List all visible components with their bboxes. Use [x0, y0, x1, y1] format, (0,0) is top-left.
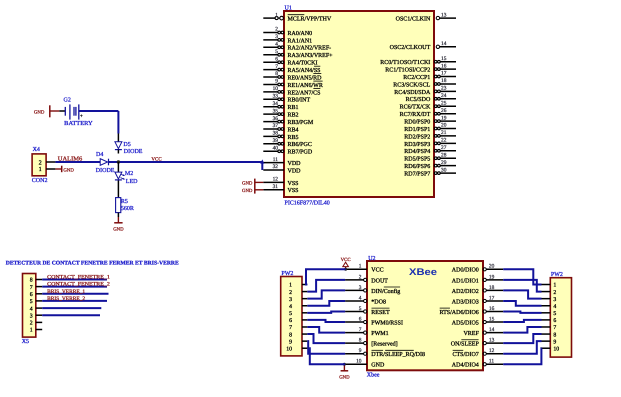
svg-text:560R: 560R: [121, 206, 134, 212]
svg-text:VDD: VDD: [288, 161, 302, 167]
svg-text:AD0/DIO0: AD0/DIO0: [452, 268, 479, 274]
svg-text:20: 20: [489, 264, 495, 270]
svg-text:20: 20: [441, 123, 447, 129]
net label BRIS_VERRE_1: [47, 289, 85, 295]
M2 comment LED: [126, 179, 138, 185]
X5 pin 7: [30, 285, 43, 291]
wire X5 pin 8: [42, 279, 107, 281]
X5 pin 5: [30, 299, 43, 305]
U1 pin 26 RC7/RX/DT: [400, 108, 456, 118]
svg-text:7: 7: [553, 325, 556, 331]
U1 pin 9 RE1/AN6/WR: [263, 79, 323, 89]
svg-text:GND: GND: [113, 227, 124, 233]
R5 designator: [121, 199, 128, 205]
svg-text:19: 19: [489, 274, 495, 280]
U2 pin 14 VREF: [463, 327, 503, 337]
svg-text:3: 3: [30, 313, 33, 319]
U2 pin 3 DIN/Config: [345, 285, 400, 295]
svg-text:VDD: VDD: [288, 168, 302, 174]
svg-text:GND: GND: [242, 181, 253, 187]
U2 pin 16 RTS/AD6/DIO6: [439, 306, 503, 316]
diode D4: [100, 159, 108, 166]
wire PW2 pin 5 to U2: [307, 312, 345, 313]
svg-text:DIN/Config: DIN/Config: [371, 288, 400, 295]
svg-text:BATTERY: BATTERY: [64, 121, 93, 127]
svg-text:3: 3: [553, 297, 556, 303]
junction at GND / U2 pin10: [343, 363, 346, 366]
PW2 (left) designator: [281, 271, 293, 277]
svg-text:2: 2: [30, 321, 33, 327]
svg-text:38: 38: [273, 131, 279, 137]
svg-text:BRIS_VERRE_2: BRIS_VERRE_2: [47, 296, 85, 302]
svg-text:28: 28: [441, 152, 447, 158]
svg-text:25: 25: [441, 100, 447, 106]
svg-text:[Reserved]: [Reserved]: [371, 341, 397, 348]
svg-text:13: 13: [489, 338, 495, 344]
svg-text:7: 7: [30, 285, 33, 291]
U1 pin 27 RD4/PSP4: [404, 145, 456, 155]
svg-text:RD3/PSP3: RD3/PSP3: [404, 142, 430, 148]
svg-text:DIODE: DIODE: [124, 149, 143, 155]
svg-text:GND: GND: [242, 188, 253, 194]
svg-text:RC7/RX/DT: RC7/RX/DT: [400, 112, 431, 118]
svg-text:7: 7: [359, 327, 362, 333]
svg-text:CONTACT_FENETRE_2: CONTACT_FENETRE_2: [47, 282, 110, 288]
svg-text:AD2/DIO2: AD2/DIO2: [452, 289, 479, 295]
U1 pin 13 OSC1/CLKIN: [396, 12, 456, 22]
U1 pin 12 VSS: [263, 177, 298, 187]
svg-text:OSC2/CLKOUT: OSC2/CLKOUT: [390, 45, 431, 51]
svg-text:5: 5: [553, 311, 556, 317]
U1 pin 16 RC1/T1OSI/CCP2: [385, 63, 456, 73]
wire battery to D5 (blue, down at x=118.4): [79, 111, 119, 142]
wire LED to R5: [117, 181, 119, 198]
svg-text:6: 6: [275, 56, 278, 62]
PW2 (right) pin 1: [542, 283, 557, 289]
svg-text:GND: GND: [63, 167, 74, 173]
wire U2 to PW2-right pin 2: [503, 280, 541, 292]
PW2 (right) pin 4: [542, 304, 557, 310]
U2 comment Xbee: [367, 371, 380, 378]
U2 designator: [368, 256, 375, 262]
svg-text:11: 11: [273, 157, 278, 163]
svg-text:AD5/DIO5: AD5/DIO5: [452, 320, 479, 326]
net label BRIS_VERRE_2: [47, 296, 85, 302]
U1 pin 35 RB2: [263, 108, 298, 118]
svg-text:1: 1: [359, 264, 362, 270]
U1 pin 7 RA5/AN4/SS: [263, 64, 320, 74]
LED M2: [115, 172, 125, 180]
svg-text:39: 39: [273, 138, 279, 144]
svg-text:34: 34: [273, 101, 279, 107]
battery designator G2: [64, 97, 71, 103]
U1 designator label: [285, 6, 292, 12]
svg-text:RE2/AN7/CS: RE2/AN7/CS: [288, 90, 321, 96]
svg-text:2: 2: [359, 274, 362, 280]
U2 pin 1 VCC: [345, 264, 384, 274]
svg-text:PW2: PW2: [551, 272, 563, 278]
svg-text:1: 1: [553, 283, 556, 289]
svg-text:11: 11: [489, 359, 494, 365]
connector X4 CON2 body: [32, 154, 46, 176]
M2 designator: [125, 171, 133, 177]
svg-text:D4: D4: [96, 152, 103, 158]
svg-text:18: 18: [489, 285, 495, 291]
svg-text:14: 14: [441, 41, 447, 47]
U2 pin 7 PWM1: [345, 327, 389, 337]
svg-text:VREF: VREF: [463, 331, 479, 337]
svg-text:RD2/PSP2: RD2/PSP2: [404, 134, 430, 140]
svg-text:UALIM6: UALIM6: [58, 156, 82, 162]
wire R5 to GND: [117, 213, 119, 223]
svg-text:RE1/AN6/WR: RE1/AN6/WR: [288, 83, 323, 89]
svg-text:RD1/PSP1: RD1/PSP1: [404, 127, 430, 133]
svg-text:37: 37: [273, 123, 279, 129]
svg-text:RA0/AN0: RA0/AN0: [288, 31, 313, 37]
U1 pin 37 RB4: [263, 123, 298, 133]
svg-text:8: 8: [553, 332, 556, 338]
svg-text:OSC1/CLKIN: OSC1/CLKIN: [396, 17, 431, 23]
U2 pin 12 CTS/DIO7: [452, 348, 503, 358]
svg-text:DOUT: DOUT: [371, 278, 388, 284]
svg-text:RA4/T0CKI: RA4/T0CKI: [288, 61, 318, 67]
svg-text:9: 9: [553, 339, 556, 345]
connector PW2 (left) body: [281, 277, 302, 356]
svg-text:RE0/AN5/RD: RE0/AN5/RD: [288, 75, 323, 81]
U1 pin 38 RB5: [263, 131, 298, 141]
U1 pin 34 RB1: [263, 101, 298, 111]
U1 pin 31 VSS: [263, 184, 298, 194]
wire X5 pin 5: [42, 300, 107, 302]
U2 pin 8 [Reserved]: [345, 338, 398, 348]
IC U2 XBee body: [367, 261, 483, 370]
U1 pin 4 RA2/AN2/VREF-: [263, 42, 331, 52]
svg-text:RTS/AD6/DIO6: RTS/AD6/DIO6: [439, 310, 478, 316]
U1 pin 15 RC0/T1OSO/T1CKI: [380, 56, 456, 66]
svg-text:+: +: [80, 114, 83, 120]
U2 pin 4 *DO8: [345, 295, 386, 305]
power port GND at X4 pin 1: [55, 166, 74, 174]
svg-text:15: 15: [489, 316, 495, 322]
U2 pin 2 DOUT: [345, 274, 388, 284]
svg-text:8: 8: [289, 332, 292, 338]
svg-text:DIODE: DIODE: [96, 168, 115, 174]
svg-text:7: 7: [275, 64, 278, 70]
U1 pin 1 MCLR/VPP/THV: [263, 12, 332, 22]
power port GND at battery: [34, 105, 50, 117]
U1 pin 14 OSC2/CLKOUT: [390, 41, 456, 51]
PW2 (right) designator: [551, 272, 563, 278]
svg-text:10: 10: [356, 359, 362, 365]
svg-text:ON/SLEEP: ON/SLEEP: [451, 342, 480, 348]
connector PW2 (right) body: [550, 278, 571, 357]
U2 pin 11 AD4/DIO4: [452, 359, 503, 369]
svg-text:RC4/SDI/SDA: RC4/SDI/SDA: [394, 90, 431, 96]
X4 comment CON2: [32, 178, 48, 184]
svg-text:RD0/PSP0: RD0/PSP0: [404, 120, 430, 126]
U1 pin 39 RB6/PGC: [263, 138, 312, 148]
svg-text:9: 9: [275, 79, 278, 85]
svg-text:2: 2: [553, 290, 556, 296]
svg-text:36: 36: [273, 116, 279, 122]
D4 comment DIODE: [96, 168, 115, 174]
svg-text:RC3/SCK/SCL: RC3/SCK/SCL: [393, 82, 430, 88]
wire D4 to VDD pins (net VCC): [109, 161, 263, 163]
svg-text:4: 4: [30, 306, 33, 312]
svg-text:18: 18: [441, 78, 447, 84]
svg-text:26: 26: [441, 108, 447, 114]
svg-text:16: 16: [489, 306, 495, 312]
svg-text:G2: G2: [64, 97, 71, 103]
X5 pin 8: [30, 278, 43, 284]
svg-text:1: 1: [289, 283, 292, 289]
svg-text:M2: M2: [125, 171, 133, 177]
PW2 (right) pin 7: [542, 325, 557, 331]
U2 pin 9 DTR/SLEEP_RQ/DI8: [345, 348, 425, 358]
wire PW2 pin 10 to U2: [307, 348, 345, 364]
svg-text:RC5/SDO: RC5/SDO: [406, 97, 431, 103]
wire PW2 pin 6 to U2: [307, 320, 345, 322]
svg-text:7: 7: [289, 325, 292, 331]
svg-text:12: 12: [489, 348, 495, 354]
U2 pin 6 PWM0/RSSI: [345, 316, 403, 326]
D5 designator: [123, 142, 130, 148]
PW2 (left) pin 1: [289, 283, 307, 289]
svg-text:RA1/AN1: RA1/AN1: [288, 38, 313, 44]
svg-text:RB4: RB4: [288, 127, 299, 133]
svg-text:1: 1: [30, 328, 33, 334]
PW2 (left) pin 9: [289, 339, 307, 345]
svg-text:LED: LED: [126, 179, 138, 185]
svg-text:6: 6: [553, 318, 556, 324]
svg-text:24: 24: [441, 93, 447, 99]
U1 pin 21 RD2/PSP2: [404, 130, 456, 140]
junction at VCC / U2 pin1: [344, 268, 347, 271]
svg-text:RD7/PSP7: RD7/PSP7: [404, 172, 430, 178]
U1 pin 29 RD6/PSP6: [404, 160, 456, 170]
svg-text:5: 5: [289, 311, 292, 317]
wire U2 to PW2-right pin 5: [503, 312, 541, 313]
svg-text:29: 29: [441, 160, 447, 166]
power port VCC at U2 pin 1: [341, 257, 351, 269]
svg-text:33: 33: [273, 94, 279, 100]
svg-text:RB0/INT: RB0/INT: [288, 98, 311, 104]
svg-text:8: 8: [30, 278, 33, 284]
PW2 (left) pin 10: [286, 346, 307, 352]
svg-text:DTR/SLEEP_RQ/DI8: DTR/SLEEP_RQ/DI8: [371, 352, 425, 358]
power port GND at U1 VSS pin 31: [242, 186, 263, 194]
PW2 (left) pin 8: [289, 332, 307, 338]
svg-text:15: 15: [441, 56, 447, 62]
PW2 (left) pin 5: [289, 311, 307, 317]
svg-text:5: 5: [275, 49, 278, 55]
svg-text:BRIS_VERRE_1: BRIS_VERRE_1: [47, 289, 85, 295]
svg-text:RD4/PSP4: RD4/PSP4: [404, 149, 430, 155]
svg-text:6: 6: [289, 318, 292, 324]
U2 pin 5 RESET: [345, 306, 390, 316]
PW2 (left) pin 2: [289, 290, 307, 296]
svg-text:19: 19: [441, 115, 447, 121]
PW2 (left) pin 7: [289, 325, 307, 331]
PW2 (left) pin 6: [289, 318, 307, 324]
svg-text:RB7/PGD: RB7/PGD: [288, 150, 313, 156]
U1 pin 10 RE2/AN7/CS: [263, 86, 320, 96]
svg-text:U1: U1: [285, 6, 292, 12]
svg-text:2: 2: [289, 290, 292, 296]
svg-text:PIC16F877/DIL40: PIC16F877/DIL40: [285, 200, 330, 206]
svg-text:RA3/AN3/VREF+: RA3/AN3/VREF+: [288, 53, 334, 59]
net label CONTACT_FENETRE_1: [47, 275, 110, 281]
U1 pin 3 RA1/AN1: [263, 34, 312, 44]
wire VDD vertical link + junction arrow: [260, 159, 264, 170]
svg-text:D5: D5: [123, 142, 130, 148]
svg-text:5: 5: [359, 306, 362, 312]
svg-text:PW2: PW2: [281, 271, 293, 277]
svg-text:U2: U2: [368, 256, 375, 262]
PW2 (right) pin 8: [542, 332, 557, 338]
U1 pin 22 RD3/PSP3: [404, 138, 456, 148]
wire PW2 pin 7 to U2: [307, 327, 345, 333]
svg-text:VSS: VSS: [288, 181, 299, 187]
U2 pin 15 AD5/DIO5: [452, 316, 503, 326]
wire X5 pin 3: [42, 314, 100, 316]
wire X5 pin 4: [42, 307, 101, 309]
svg-text:RB1: RB1: [288, 105, 299, 111]
U1 pin 23 RC4/SDI/SDA: [394, 86, 456, 96]
X5 pin 4: [30, 306, 43, 312]
wire U2 to PW2-right pin 6: [503, 320, 541, 322]
PW2 (right) pin 2: [542, 290, 557, 296]
U1 pin 25 RC6/TX/CK: [400, 100, 456, 110]
svg-text:RB3/PGM: RB3/PGM: [288, 120, 314, 126]
svg-text:RC2/CCP1: RC2/CCP1: [403, 75, 430, 81]
U1 pin 30 RD7/PSP7: [404, 167, 456, 177]
svg-text:3: 3: [275, 34, 278, 40]
svg-text:VSS: VSS: [288, 188, 299, 194]
U1 pin 18 RC3/SCK/SCL: [393, 78, 456, 88]
wire U2 to PW2-right pin 8: [503, 334, 541, 343]
PW2 (left) pin 4: [289, 304, 307, 310]
D4 designator: [96, 152, 103, 158]
svg-text:14: 14: [489, 327, 495, 333]
IC U1 PIC16F877 body: [284, 11, 434, 197]
svg-text:27: 27: [441, 145, 447, 151]
svg-text:X5: X5: [22, 339, 29, 345]
PW2 (left) pin 3: [289, 297, 307, 303]
wire GND to battery: [50, 110, 65, 112]
svg-text:30: 30: [441, 167, 447, 173]
svg-text:21: 21: [441, 130, 447, 136]
U1 pin 36 RB3/PGM: [263, 116, 314, 126]
wire U2 to PW2-right pin 3: [503, 290, 541, 298]
svg-text:8: 8: [359, 338, 362, 344]
XBee logo text: [409, 267, 437, 278]
svg-text:CON2: CON2: [32, 178, 48, 184]
svg-text:X4: X4: [33, 147, 40, 153]
wire U2 to PW2-right pin 1: [503, 269, 541, 284]
PW2 (right) pin 10: [542, 346, 560, 352]
resistor R5: [116, 198, 121, 213]
svg-text:VCC: VCC: [371, 268, 383, 274]
svg-text:32: 32: [273, 164, 279, 170]
svg-text:CTS/DIO7: CTS/DIO7: [452, 352, 478, 358]
svg-text:8: 8: [275, 71, 278, 77]
svg-text:9: 9: [289, 339, 292, 345]
U2 pin 10 GND: [345, 359, 385, 369]
svg-text:VCC: VCC: [151, 157, 162, 163]
power port GND at U1 VSS pin 12: [242, 179, 263, 187]
U1 pin 32 VDD: [263, 164, 301, 174]
svg-text:PWM0/RSSI: PWM0/RSSI: [371, 320, 403, 326]
U2 pin 18 AD2/DIO2: [452, 285, 503, 295]
net label UALIM6: [58, 156, 82, 162]
X5 pin 6: [30, 292, 43, 298]
svg-text:6: 6: [30, 292, 33, 298]
svg-text:GND: GND: [34, 110, 45, 116]
U2 pin 17 AD3/DIO3: [452, 295, 503, 305]
svg-text:RD6/PSP6: RD6/PSP6: [404, 164, 430, 170]
svg-text:RESET: RESET: [371, 310, 390, 316]
svg-text:9: 9: [359, 348, 362, 354]
svg-text:RC6/TX/CK: RC6/TX/CK: [400, 105, 431, 111]
svg-text:17: 17: [441, 71, 447, 77]
svg-text:1: 1: [39, 166, 42, 173]
svg-text:GND: GND: [339, 375, 350, 381]
diode D5: [115, 142, 122, 154]
svg-text:10: 10: [553, 346, 559, 352]
svg-text:6: 6: [359, 316, 362, 322]
U1 pin 33 RB0/INT: [263, 94, 310, 104]
PW2 (right) pin 5: [542, 311, 557, 317]
svg-text:35: 35: [273, 108, 279, 114]
svg-text:RB6/PGC: RB6/PGC: [288, 142, 312, 148]
svg-text:1: 1: [275, 12, 278, 18]
U1 pin 8 RE0/AN5/RD: [263, 71, 322, 81]
U1 pin 19 RD0/PSP0: [404, 115, 456, 125]
U2 pin 19 AD1/DIO1: [452, 274, 503, 284]
U2 pin 20 AD0/DIO0: [452, 264, 503, 274]
svg-text:13: 13: [441, 12, 447, 18]
junction node at D5/D4/LED: [117, 160, 120, 163]
wire U2 to PW2-right pin 10: [503, 348, 541, 364]
svg-text:*DO8: *DO8: [371, 299, 386, 305]
R5 value 560R: [121, 206, 134, 212]
wire X5 pin 6: [42, 293, 108, 295]
net label VCC: [151, 157, 162, 163]
wire PW2 pin 9 to U2: [307, 341, 345, 354]
svg-text:RB2: RB2: [288, 113, 299, 119]
wire PW2 pin 3 to U2: [307, 290, 345, 298]
svg-text:RB5: RB5: [288, 135, 299, 141]
connector X5 body: [23, 274, 36, 338]
wire PW2 pin 4 to U2: [307, 301, 345, 306]
svg-text:3: 3: [289, 297, 292, 303]
wire U2 to PW2-right pin 9: [503, 341, 541, 354]
svg-text:GND: GND: [371, 363, 385, 369]
svg-text:5: 5: [30, 299, 33, 305]
svg-text:AD1/DIO1: AD1/DIO1: [452, 278, 479, 284]
X5 pin 1: [30, 328, 43, 334]
wire U2 to PW2-right pin 4: [503, 301, 541, 306]
X4 pin 1: [39, 166, 56, 173]
svg-text:RA2/AN2/VREF-: RA2/AN2/VREF-: [288, 46, 332, 52]
svg-text:R5: R5: [121, 199, 128, 205]
svg-text:40: 40: [273, 146, 279, 152]
svg-text:22: 22: [441, 138, 447, 144]
U1 pin 6 RA4/T0CKI: [263, 56, 317, 66]
battery comment label BATTERY: [64, 121, 93, 127]
title text DETECTEUR: [6, 261, 179, 267]
